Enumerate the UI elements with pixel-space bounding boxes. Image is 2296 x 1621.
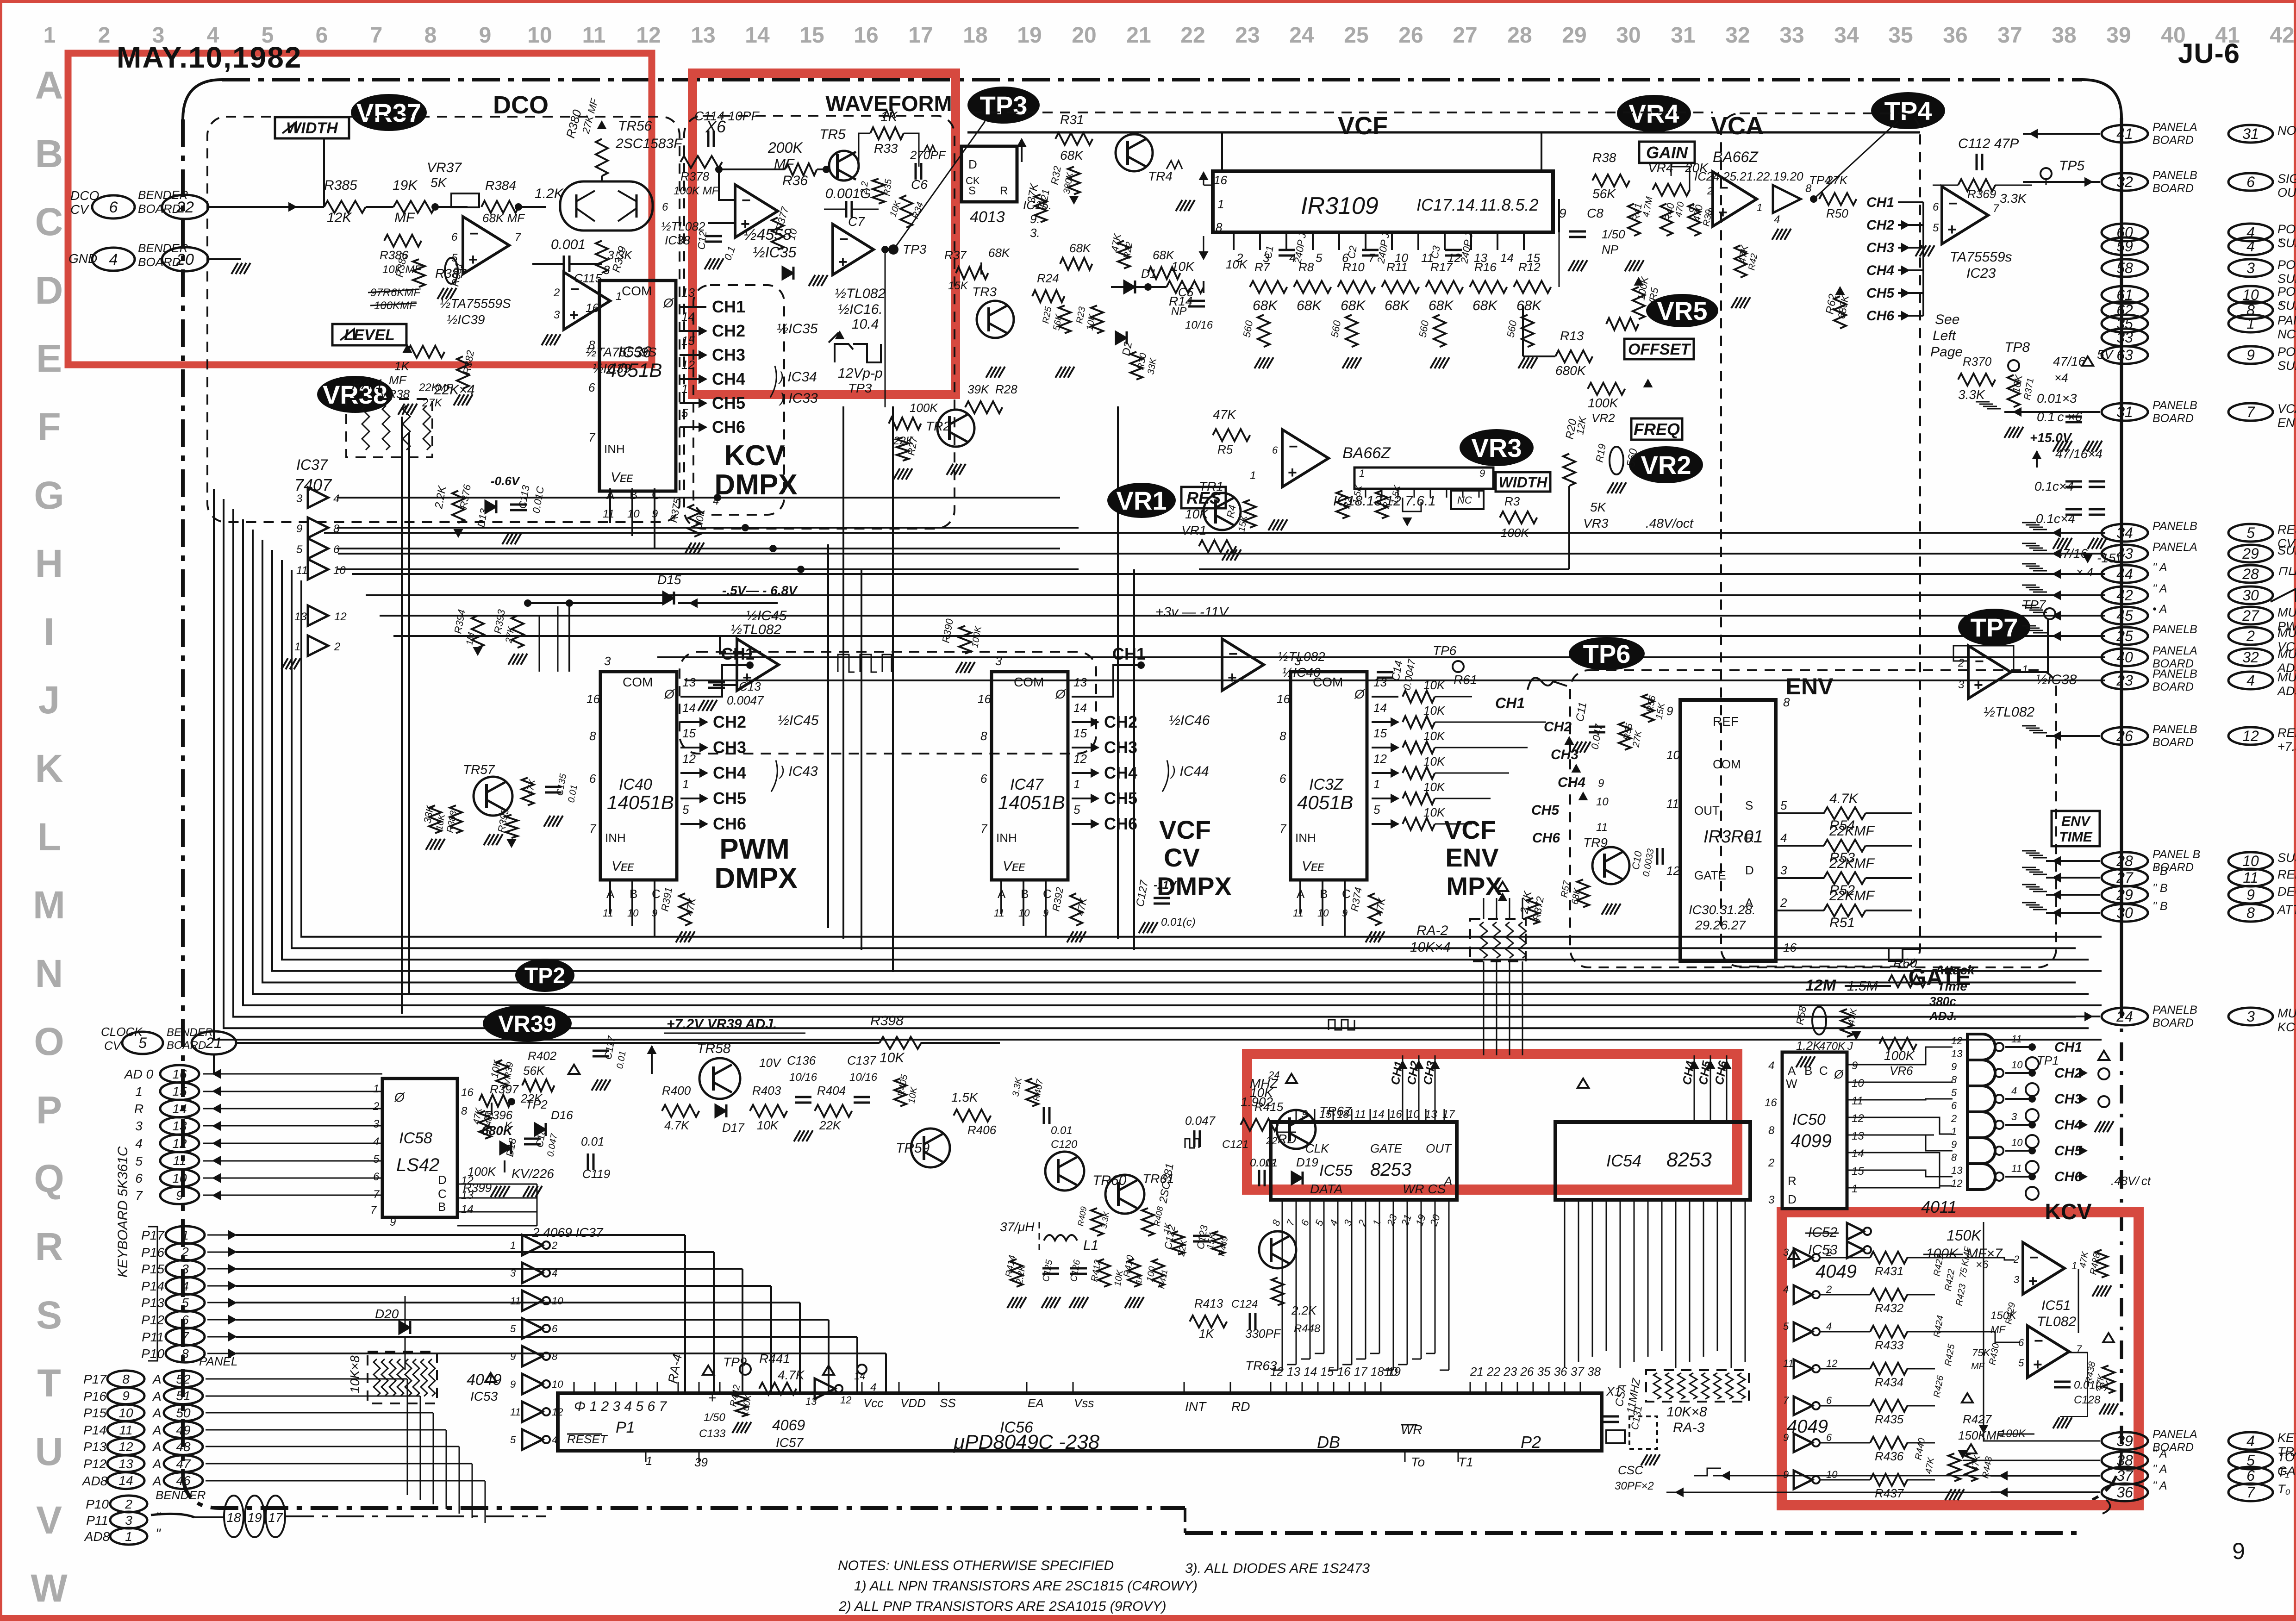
svg-text:5: 5: [510, 1434, 516, 1446]
svg-text:12: 12: [119, 1440, 133, 1454]
svg-text:PANELA: PANELA: [2152, 541, 2197, 554]
svg-text:19: 19: [1017, 23, 1042, 48]
svg-text:100K: 100K: [1588, 396, 1619, 410]
svg-text:VCA: VCA: [2277, 402, 2296, 416]
svg-text:8: 8: [1951, 1152, 1957, 1163]
svg-text:V: V: [36, 1498, 62, 1542]
svg-text:WIDTH: WIDTH: [1499, 474, 1548, 491]
svg-text:4049: 4049: [467, 1371, 502, 1389]
svg-text:VCA: VCA: [1711, 112, 1764, 140]
svg-text:VCF: VCF: [1159, 815, 1211, 844]
svg-text:5K: 5K: [430, 175, 447, 190]
svg-text:CH2: CH2: [712, 321, 745, 340]
svg-text:68K: 68K: [1429, 298, 1454, 313]
svg-text:52: 52: [176, 1372, 191, 1386]
svg-text:4: 4: [2246, 1433, 2255, 1449]
svg-text:T₀: T₀: [2277, 1482, 2290, 1496]
svg-text:TP1: TP1: [2037, 1054, 2059, 1067]
svg-text:13: 13: [805, 1396, 817, 1407]
svg-text:−: −: [743, 645, 753, 663]
svg-text:OUT: OUT: [1694, 804, 1720, 817]
svg-text:D17: D17: [722, 1121, 745, 1135]
svg-text:POWER: POWER: [2277, 222, 2296, 236]
svg-text:10: 10: [2242, 853, 2259, 869]
svg-text:14: 14: [119, 1473, 133, 1488]
svg-text:9: 9: [1598, 777, 1604, 790]
svg-text:3: 3: [1783, 1247, 1789, 1258]
svg-text:1.902: 1.902: [1241, 1095, 1273, 1109]
svg-text:68K: 68K: [1253, 298, 1278, 313]
svg-text:T1: T1: [1458, 1455, 1473, 1469]
svg-text:6: 6: [662, 201, 668, 213]
svg-text:3: 3: [1958, 679, 1965, 691]
svg-text:14: 14: [1373, 701, 1387, 715]
svg-text:G: G: [34, 474, 64, 517]
svg-text:12: 12: [1852, 1112, 1864, 1125]
svg-text:Vᴇᴇ: Vᴇᴇ: [611, 470, 633, 485]
svg-text:KEYBOARD 5K361C: KEYBOARD 5K361C: [115, 1146, 131, 1278]
svg-text:VCF: VCF: [1338, 112, 1388, 140]
svg-text:": ": [2277, 300, 2283, 314]
svg-text:TL082: TL082: [2037, 1314, 2076, 1329]
svg-text:RELEASE: RELEASE: [2277, 867, 2296, 881]
svg-text:5: 5: [682, 803, 689, 817]
svg-text:2: 2: [1826, 1284, 1832, 1295]
svg-text:11: 11: [1596, 821, 1608, 834]
svg-text:4: 4: [2011, 1085, 2017, 1097]
svg-text:R384: R384: [485, 178, 516, 193]
svg-text:1: 1: [1373, 777, 1380, 791]
svg-text:56K: 56K: [523, 1064, 545, 1078]
svg-text:+: +: [569, 306, 579, 324]
svg-text:P16: P16: [141, 1245, 164, 1259]
svg-text:AD 0: AD 0: [124, 1067, 154, 1081]
svg-text:EA: EA: [1028, 1396, 1044, 1410]
svg-text:½4558: ½4558: [743, 226, 792, 243]
svg-text:IC57: IC57: [776, 1435, 804, 1450]
svg-text:5: 5: [181, 1296, 189, 1310]
svg-text:39: 39: [694, 1455, 708, 1469]
svg-text:IC51: IC51: [2041, 1298, 2071, 1313]
svg-text:3: 3: [2246, 1008, 2255, 1025]
svg-text:BOARD: BOARD: [2152, 134, 2194, 147]
svg-text:IC23: IC23: [1966, 266, 1996, 281]
svg-text:SUB: SUB: [2277, 543, 2296, 557]
svg-text:MULTI: MULTI: [2277, 670, 2296, 684]
svg-text:CH1: CH1: [1866, 195, 1894, 210]
svg-text:47/16: 47/16: [2055, 546, 2088, 561]
svg-text:3: 3: [2011, 1111, 2017, 1122]
svg-text:A: A: [152, 1423, 162, 1437]
svg-text:TR9: TR9: [1583, 835, 1608, 850]
svg-text:" A: " A: [2152, 582, 2167, 595]
svg-text:11: 11: [173, 1153, 186, 1168]
svg-text:14: 14: [854, 1370, 865, 1382]
svg-text:I: I: [44, 610, 54, 654]
svg-text:×6: ×6: [1976, 1259, 1989, 1271]
svg-text:2: 2: [125, 1497, 132, 1511]
svg-text:R370: R370: [1963, 355, 1992, 368]
svg-text:6: 6: [1279, 772, 1286, 786]
svg-text:1.2K: 1.2K: [1796, 1039, 1822, 1053]
svg-text:13: 13: [1073, 675, 1087, 689]
svg-text:1/50: 1/50: [1602, 227, 1625, 241]
svg-text:6: 6: [2246, 174, 2255, 190]
svg-text:REFERENCE: REFERENCE: [2277, 726, 2296, 740]
svg-text:R400: R400: [662, 1084, 691, 1097]
svg-text:W: W: [1786, 1077, 1797, 1091]
svg-text:5: 5: [1783, 1321, 1789, 1332]
svg-text:CH6: CH6: [1532, 830, 1560, 846]
svg-text:10K: 10K: [1423, 805, 1446, 819]
svg-text:0.0047: 0.0047: [727, 693, 764, 707]
svg-text:10/16: 10/16: [789, 1071, 817, 1084]
svg-text:14051B: 14051B: [607, 792, 674, 813]
svg-text:IR3109: IR3109: [1301, 193, 1379, 219]
svg-text:R17: R17: [1430, 260, 1453, 274]
svg-text:VR4: VR4: [1629, 99, 1679, 128]
svg-text:6: 6: [980, 772, 987, 786]
svg-text:8: 8: [1279, 729, 1286, 743]
svg-text:IC3Z: IC3Z: [1309, 776, 1344, 793]
svg-text:Vᴇᴇ: Vᴇᴇ: [1003, 859, 1025, 874]
svg-text:PANELA: PANELA: [2152, 1428, 2197, 1441]
svg-text:CSC: CSC: [1618, 1463, 1643, 1477]
svg-text:1K: 1K: [1199, 1327, 1214, 1340]
svg-text:C112 47P: C112 47P: [1958, 136, 2019, 151]
svg-text:63: 63: [2116, 347, 2133, 363]
svg-text:JU-6: JU-6: [2178, 38, 2240, 69]
svg-text:46: 46: [176, 1473, 191, 1488]
svg-text:INT: INT: [1185, 1399, 1207, 1414]
svg-text:L1: L1: [1083, 1238, 1098, 1253]
svg-text:CH6: CH6: [712, 418, 745, 436]
svg-text:5: 5: [510, 1323, 516, 1334]
svg-text:TR57: TR57: [463, 762, 495, 777]
svg-text:R61: R61: [1454, 673, 1477, 687]
svg-text:MULTI: MULTI: [2277, 647, 2296, 661]
svg-text:P16: P16: [83, 1389, 106, 1403]
svg-text:TIME: TIME: [2059, 829, 2093, 845]
svg-text:6: 6: [552, 1323, 558, 1334]
svg-text:MULTI: MULTI: [2277, 626, 2296, 640]
svg-text:P14: P14: [83, 1423, 106, 1437]
svg-text:1: 1: [1073, 777, 1080, 791]
svg-text:C2: C2: [1345, 245, 1359, 260]
svg-text:4069: 4069: [772, 1417, 805, 1434]
svg-text:12: 12: [1951, 1178, 1962, 1189]
svg-text:12: 12: [334, 611, 347, 623]
svg-text:.48V/oct: .48V/oct: [1646, 516, 1694, 530]
svg-text:C: C: [438, 1187, 447, 1201]
svg-text:Ø: Ø: [394, 1090, 406, 1104]
svg-text:8: 8: [1783, 695, 1790, 709]
svg-text:2) ALL PNP TRANSISTORS ARE 2SA: 2) ALL PNP TRANSISTORS ARE 2SA1015 (9ROV…: [838, 1599, 1167, 1614]
svg-text:ENV: ENV: [1786, 673, 1834, 699]
svg-text:22KMF: 22KMF: [1829, 823, 1875, 839]
svg-text:1: 1: [135, 1085, 143, 1099]
svg-text:+: +: [2028, 1272, 2038, 1290]
svg-text:D: D: [1745, 863, 1754, 877]
svg-text:TP6: TP6: [1583, 639, 1631, 668]
svg-text:R11: R11: [1386, 260, 1408, 274]
svg-text:6: 6: [316, 23, 328, 48]
svg-text:16: 16: [978, 692, 991, 706]
svg-text:58: 58: [2116, 260, 2133, 276]
svg-text:R399: R399: [463, 1181, 492, 1195]
svg-text:9: 9: [2246, 347, 2255, 363]
svg-text:RD: RD: [1231, 1399, 1250, 1414]
svg-text:+7.5V: +7.5V: [2277, 740, 2296, 754]
svg-text:+3v — -11V: +3v — -11V: [1155, 605, 1229, 620]
svg-text:R33: R33: [874, 141, 898, 156]
svg-text:KCV: KCV: [2277, 1020, 2296, 1034]
svg-text:26: 26: [1398, 23, 1423, 48]
svg-text:39K: 39K: [967, 382, 990, 396]
svg-text:27: 27: [1453, 23, 1477, 48]
svg-text:3). ALL DIODES ARE 1S2473: 3). ALL DIODES ARE 1S2473: [1185, 1561, 1370, 1576]
svg-text:P: P: [36, 1088, 62, 1132]
svg-text:VR2: VR2: [1591, 411, 1615, 425]
svg-text:16: 16: [586, 692, 600, 706]
svg-text:½TL082: ½TL082: [1984, 705, 2034, 720]
svg-text:1: 1: [1250, 469, 1256, 482]
svg-text:TR5: TR5: [819, 127, 846, 142]
svg-text:R378: R378: [680, 169, 710, 183]
svg-text:68K: 68K: [1385, 298, 1410, 313]
svg-text:DMPX: DMPX: [714, 862, 797, 894]
svg-text:9: 9: [479, 23, 492, 48]
svg-text:BOARD: BOARD: [138, 255, 181, 269]
svg-text:TP3: TP3: [903, 242, 927, 256]
svg-text:680K: 680K: [1555, 363, 1586, 378]
svg-text:4: 4: [373, 1135, 379, 1148]
svg-text:CH3: CH3: [712, 345, 745, 364]
svg-text:SS: SS: [940, 1396, 956, 1410]
svg-text:P2: P2: [1521, 1433, 1541, 1452]
svg-text:BOARD: BOARD: [2152, 182, 2194, 195]
svg-text:VR3: VR3: [1583, 516, 1609, 530]
svg-text:25: 25: [2116, 628, 2133, 644]
svg-text:IC40: IC40: [619, 776, 652, 793]
svg-text:32: 32: [2242, 649, 2259, 666]
svg-text:R37: R37: [944, 248, 967, 262]
svg-text:11: 11: [119, 1423, 132, 1437]
svg-text:VR6: VR6: [1890, 1064, 1913, 1078]
svg-text:7: 7: [1279, 822, 1287, 835]
svg-text:11: 11: [603, 907, 613, 919]
svg-text:3: 3: [1780, 863, 1787, 877]
svg-text:½TL082: ½TL082: [835, 286, 886, 301]
svg-text:IC24.25.21.22.19.20: IC24.25.21.22.19.20: [1694, 169, 1803, 183]
svg-text:36: 36: [2116, 1484, 2133, 1501]
svg-text:16: 16: [1783, 941, 1797, 954]
svg-text:R16: R16: [1474, 260, 1497, 274]
svg-text:8: 8: [1951, 1074, 1957, 1085]
svg-text:NP: NP: [1171, 305, 1186, 318]
svg-text:9: 9: [2246, 886, 2255, 903]
svg-text:AD8: AD8: [81, 1474, 108, 1488]
svg-text:0.001: 0.001: [551, 237, 586, 252]
svg-text:18: 18: [1337, 1108, 1349, 1121]
svg-text:Attack: Attack: [1934, 963, 1975, 977]
svg-text:−: −: [1975, 653, 1984, 670]
svg-text:2SC1583F: 2SC1583F: [615, 136, 683, 151]
svg-text:16: 16: [1214, 173, 1227, 187]
svg-text:−: −: [1229, 645, 1238, 663]
svg-text:W: W: [31, 1566, 68, 1610]
svg-text:8: 8: [333, 523, 340, 535]
svg-text:R35: R35: [882, 178, 894, 197]
svg-text:4049: 4049: [1816, 1261, 1857, 1282]
svg-text:BA66Z: BA66Z: [1713, 149, 1759, 165]
svg-text:6: 6: [1689, 203, 1695, 214]
svg-text:½IC38: ½IC38: [2036, 672, 2077, 687]
svg-text:7: 7: [370, 1204, 377, 1216]
svg-text:PANELB: PANELB: [2152, 1004, 2197, 1016]
svg-text:R434: R434: [1875, 1375, 1903, 1389]
svg-text:P15: P15: [141, 1262, 164, 1276]
svg-text:1: 1: [44, 23, 56, 48]
svg-text:10: 10: [1826, 1469, 1838, 1480]
svg-text:30: 30: [2116, 904, 2133, 921]
svg-text:14: 14: [172, 1102, 187, 1116]
svg-text:DECAY: DECAY: [2277, 885, 2296, 898]
svg-text:CH1: CH1: [2054, 1040, 2082, 1055]
svg-text:1: 1: [373, 1083, 379, 1095]
svg-text:A: A: [152, 1389, 162, 1403]
svg-text:3: 3: [2246, 260, 2255, 276]
svg-text:16: 16: [1765, 1097, 1777, 1109]
svg-text:1) ALL NPN TRANSISTORS ARE 2SC: 1) ALL NPN TRANSISTORS ARE 2SC1815 (C4RO…: [854, 1578, 1198, 1594]
svg-text:BOARD: BOARD: [138, 202, 181, 216]
svg-text:A: A: [1745, 896, 1753, 910]
svg-text:4: 4: [1780, 831, 1787, 845]
svg-text:B: B: [438, 1200, 446, 1214]
svg-text:D16: D16: [551, 1108, 573, 1122]
svg-text:B: B: [1320, 887, 1328, 901]
svg-text:REF: REF: [1713, 714, 1739, 729]
svg-text:11: 11: [296, 564, 308, 577]
svg-text:C1: C1: [1262, 245, 1276, 260]
svg-text:2: 2: [1780, 896, 1787, 910]
svg-text:29: 29: [1562, 23, 1586, 48]
svg-text:15: 15: [799, 23, 824, 48]
svg-text:8: 8: [181, 1347, 189, 1361]
svg-text:R436: R436: [1875, 1449, 1904, 1463]
svg-text:8: 8: [122, 1372, 130, 1386]
svg-text:17: 17: [268, 1510, 283, 1525]
svg-text:" B: " B: [2152, 900, 2168, 913]
svg-text:1.5K: 1.5K: [951, 1090, 979, 1104]
svg-text:1: 1: [294, 641, 300, 653]
svg-text:) IC43: ) IC43: [779, 764, 818, 779]
svg-text:7: 7: [1368, 251, 1376, 265]
svg-text:P12: P12: [83, 1457, 106, 1471]
svg-text:+: +: [838, 253, 848, 271]
svg-text:24: 24: [1268, 1069, 1279, 1081]
svg-text:2: 2: [373, 1100, 379, 1113]
svg-text:10K: 10K: [1423, 704, 1446, 717]
svg-text:10K: 10K: [1423, 678, 1446, 692]
svg-text:34: 34: [2116, 524, 2133, 541]
svg-text:28: 28: [1507, 23, 1532, 48]
svg-text:MULTI: MULTI: [2277, 605, 2296, 619]
svg-text:−: −: [2029, 1249, 2039, 1266]
svg-text:D: D: [968, 157, 977, 171]
svg-text:12: 12: [1666, 864, 1680, 878]
svg-text:1: 1: [616, 290, 622, 303]
svg-text:1: 1: [2071, 1260, 2077, 1272]
svg-text:R5: R5: [1217, 443, 1233, 456]
svg-text:MAY.10,1982: MAY.10,1982: [117, 41, 302, 74]
svg-text:10/16: 10/16: [1185, 319, 1213, 331]
svg-text:10K: 10K: [1423, 754, 1446, 768]
svg-text:D20: D20: [375, 1307, 399, 1321]
svg-text:1: 1: [2022, 663, 2028, 676]
svg-text:10K: 10K: [757, 1118, 779, 1132]
svg-text:22K: 22K: [418, 381, 439, 394]
svg-text:COM: COM: [623, 675, 653, 689]
svg-text:) IC44: ) IC44: [1170, 764, 1209, 779]
svg-text:C: C: [1819, 1064, 1828, 1078]
svg-text:Vᴇᴇ: Vᴇᴇ: [611, 859, 634, 874]
svg-text:PANELA: PANELA: [2152, 121, 2197, 134]
svg-text:3: 3: [1707, 206, 1713, 218]
svg-text:5K: 5K: [1590, 500, 1607, 514]
svg-text:13: 13: [294, 611, 307, 623]
svg-text:CV: CV: [104, 1039, 122, 1053]
svg-text:4.7K: 4.7K: [778, 1368, 805, 1382]
svg-text:16: 16: [854, 23, 878, 48]
svg-text:5: 5: [296, 543, 303, 556]
svg-text:S: S: [1745, 798, 1753, 812]
svg-text:P10: P10: [141, 1347, 164, 1361]
svg-text:4099: 4099: [1791, 1131, 1832, 1151]
svg-text:TR1: TR1: [1199, 479, 1223, 493]
svg-text:3: 3: [181, 1262, 189, 1276]
svg-text:11: 11: [582, 23, 606, 48]
svg-text:31: 31: [2242, 125, 2259, 142]
svg-text:R437: R437: [1875, 1486, 1904, 1500]
svg-text:IC37: IC37: [296, 456, 328, 473]
svg-text:½IC46: ½IC46: [1282, 665, 1321, 680]
svg-text:½IC46: ½IC46: [1169, 713, 1210, 728]
svg-text:": ": [156, 1510, 161, 1525]
svg-text:RES: RES: [2277, 523, 2296, 536]
svg-text:0.01×3: 0.01×3: [2037, 391, 2077, 405]
svg-text:SUPPLY: SUPPLY: [2277, 272, 2296, 286]
svg-text:8253: 8253: [1666, 1148, 1712, 1171]
svg-text:P17: P17: [141, 1228, 165, 1242]
svg-text:26: 26: [2116, 728, 2133, 744]
svg-text:CH5: CH5: [2054, 1143, 2083, 1159]
svg-text:" A: " A: [2152, 1447, 2167, 1460]
svg-text:BOARD: BOARD: [2152, 1016, 2194, 1029]
svg-text:R: R: [134, 1102, 143, 1116]
svg-text:CH2: CH2: [713, 712, 746, 731]
svg-text:6: 6: [1951, 1100, 1957, 1111]
svg-text:C121: C121: [1222, 1138, 1248, 1151]
svg-text:2 4069 IC37: 2 4069 IC37: [532, 1225, 604, 1240]
svg-text:VDD: VDD: [900, 1396, 926, 1410]
svg-text:F: F: [37, 405, 61, 449]
svg-text:TP7: TP7: [2022, 598, 2046, 612]
svg-text:29: 29: [2116, 886, 2133, 903]
svg-text:68K: 68K: [1516, 298, 1542, 313]
svg-text:10: 10: [333, 564, 346, 577]
svg-text:6: 6: [2246, 1467, 2255, 1484]
